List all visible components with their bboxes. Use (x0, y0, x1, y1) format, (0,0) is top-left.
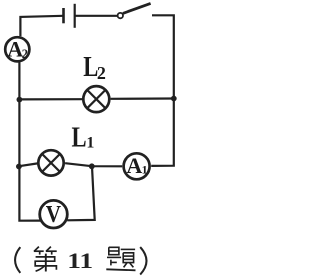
battery cell: long plate (positive) (74, 4, 76, 28)
node: junction between L1 and A1 (voltmeter tap) (89, 163, 95, 169)
caption right paren (140, 247, 146, 275)
label L2 (83, 50, 106, 83)
ammeter A1 (124, 153, 150, 180)
node: left rail junction with L2 branch (17, 97, 23, 103)
node: right rail junction with L2 branch (171, 96, 177, 102)
wire: battery to switch (75, 15, 118, 17)
label L1 (71, 121, 94, 153)
wire: voltmeter V right lead up to L1/A1 node (67, 167, 95, 221)
svg-text:2: 2 (22, 47, 28, 61)
wire: switch to top-right corner, right rail, and lead into ammeter A1 (151, 15, 174, 166)
svg-text:L: L (71, 121, 86, 153)
caption character 题 (106, 247, 135, 270)
switch S blade (open) (123, 3, 151, 13)
battery cell: short plate (negative) (62, 8, 65, 23)
caption left paren (15, 247, 20, 273)
svg-text:A: A (126, 153, 142, 178)
ammeter A2 (5, 36, 29, 61)
wire: left rail from A2 down to bottom-left corner (19, 63, 40, 221)
wire: top-left corner (battery negative lead) (20, 16, 63, 36)
svg-text:1: 1 (142, 163, 148, 177)
svg-text:11: 11 (67, 249, 93, 273)
caption: （第 11 题） (15, 247, 146, 275)
wire: lamp L2 to right rail (111, 97, 173, 100)
switch S pivot (118, 13, 123, 18)
wire: lamp L1 to ammeter A1 through node (65, 163, 122, 166)
voltmeter V (40, 200, 68, 228)
svg-text:V: V (46, 201, 62, 228)
wire: left rail to lamp L2 (19, 98, 82, 100)
lamp L2 (83, 86, 109, 112)
node: left rail junction with L1/V branch (16, 164, 22, 170)
lamp L1 (38, 150, 63, 175)
svg-text:1: 1 (86, 134, 94, 151)
wire: left rail to lamp L1 (19, 163, 38, 166)
svg-text:2: 2 (97, 63, 106, 83)
caption character 第 (34, 247, 57, 272)
